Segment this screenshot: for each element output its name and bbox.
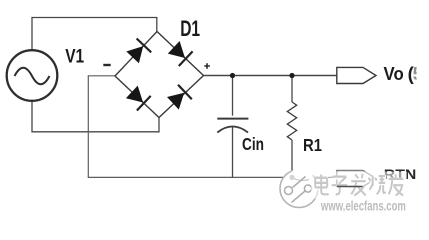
svg-text:www.elecfans.com: www.elecfans.com xyxy=(320,198,406,213)
svg-text:Vo: Vo xyxy=(384,63,404,84)
svg-text:D1: D1 xyxy=(180,16,200,41)
svg-text:Cin: Cin xyxy=(242,134,264,154)
svg-text:R1: R1 xyxy=(303,135,322,155)
svg-text:V1: V1 xyxy=(65,45,84,67)
